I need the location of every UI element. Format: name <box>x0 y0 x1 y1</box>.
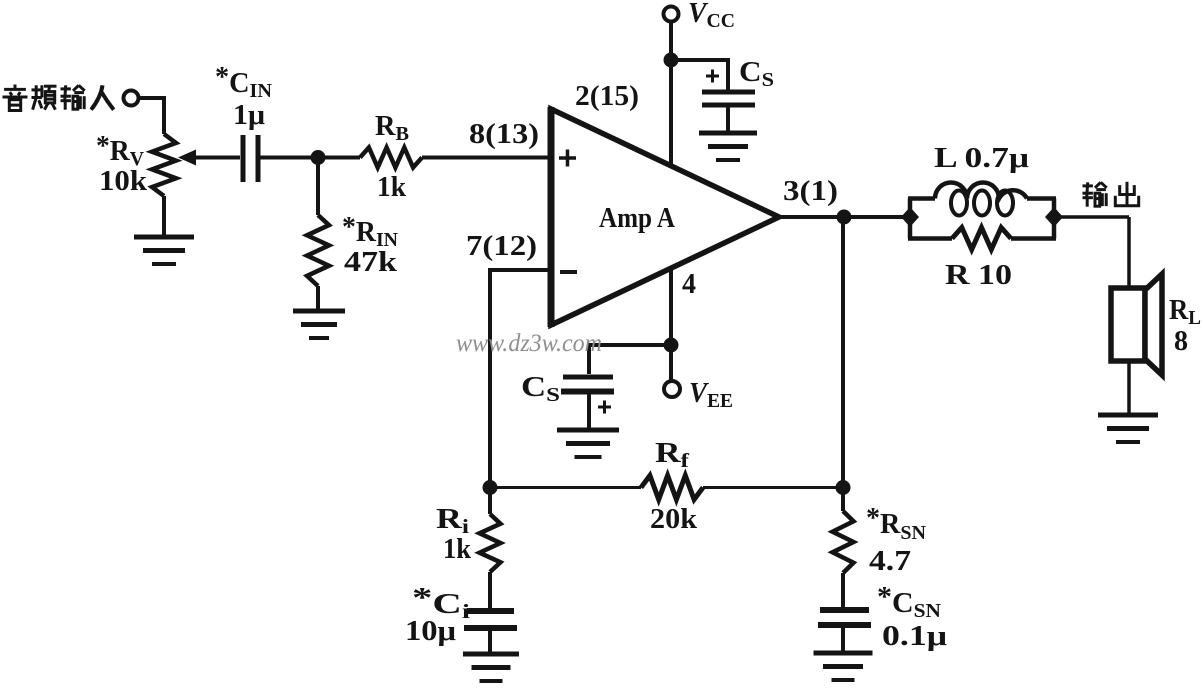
speaker RL <box>1111 274 1162 375</box>
svg-text:*RIN: *RIN <box>342 212 399 251</box>
op-amp U1 Amp A triangle <box>551 107 779 327</box>
svg-text:*RV: *RV <box>96 131 145 170</box>
wire op-amp output to L-R network <box>779 215 905 219</box>
plus sign of CS top <box>706 70 719 83</box>
wire node C up to output node <box>841 217 845 488</box>
svg-text:10μ: 10μ <box>405 616 456 647</box>
ground of Ci <box>463 654 519 681</box>
label RL <box>1169 295 1201 329</box>
ground of RV <box>134 237 194 264</box>
svg-text:8(13): 8(13) <box>469 119 539 150</box>
capacitor CS bottom <box>561 377 614 392</box>
svg-text:1k: 1k <box>443 534 471 565</box>
wire RB to op-amp + input pin 8 <box>422 156 551 160</box>
wire RV bottom to ground <box>162 196 166 236</box>
label Amp A <box>599 203 676 234</box>
svg-text:8: 8 <box>1174 326 1188 357</box>
ground of CS bottom <box>557 430 619 457</box>
svg-text:0.1μ: 0.1μ <box>882 621 947 652</box>
wire network to output <box>1059 215 1129 219</box>
svg-text:RB: RB <box>375 111 409 145</box>
label 1u <box>233 100 265 131</box>
wire RIN to ground <box>316 286 320 310</box>
label *CSN <box>877 582 942 622</box>
resistor Rf <box>641 476 703 500</box>
right junction diamond <box>1045 207 1063 227</box>
wire node B to Rf <box>490 486 641 489</box>
svg-text:Amp A: Amp A <box>599 203 676 234</box>
wire CS bottom to ground <box>587 394 591 428</box>
svg-text:1k: 1k <box>377 172 406 203</box>
wire node A down to RIN <box>316 158 320 216</box>
svg-text:4.7: 4.7 <box>869 546 911 577</box>
wire CIN to node A <box>260 156 318 160</box>
ground of CS top <box>699 133 757 160</box>
label pin 8(13) <box>469 119 539 150</box>
svg-text:VCC: VCC <box>688 0 735 32</box>
label pin 2(15) <box>575 81 639 112</box>
resistor RIN <box>307 215 329 286</box>
label *RV <box>96 131 145 170</box>
svg-text:3(1): 3(1) <box>783 176 838 207</box>
svg-text:CS: CS <box>739 57 774 91</box>
resistor R 10 <box>952 228 1011 250</box>
VCC terminal <box>664 7 679 22</box>
svg-text:RL: RL <box>1169 295 1201 329</box>
label 1k (RB) <box>377 172 406 203</box>
label 音频输入 (audio input) <box>3 85 114 111</box>
svg-text:4: 4 <box>682 269 696 300</box>
node VCC junction dot <box>664 53 679 68</box>
label RB <box>375 111 409 145</box>
wire input terminal to RV top <box>139 98 164 134</box>
node A junction dot <box>311 150 326 165</box>
VEE terminal <box>664 381 680 397</box>
label 输出 (output) <box>1083 182 1139 207</box>
svg-text:Rf: Rf <box>655 438 689 472</box>
label 20k <box>650 504 697 535</box>
wire CS to ground <box>726 107 730 132</box>
svg-text:www.dz3w.com: www.dz3w.com <box>456 330 602 357</box>
label 47k <box>344 247 398 278</box>
ground of RL <box>1098 415 1158 442</box>
wire node to CS top <box>671 60 728 90</box>
svg-text:7(12): 7(12) <box>466 231 537 262</box>
svg-text:VEE: VEE <box>689 378 733 412</box>
wire RSN to CSN <box>841 573 845 607</box>
svg-text:*CIN: *CIN <box>215 62 273 102</box>
wire Rf to node C <box>703 486 843 489</box>
label L 0.7u <box>934 143 1029 174</box>
svg-text:L 0.7μ: L 0.7μ <box>934 143 1029 174</box>
wire op-amp pin 7 to feedback node <box>490 270 551 487</box>
label 10k <box>99 166 147 197</box>
L-R network frame <box>908 199 1056 239</box>
svg-text:*CSN: *CSN <box>877 582 942 622</box>
plus sign of CS bottom <box>598 401 611 414</box>
label Ri <box>436 504 470 538</box>
label VCC <box>688 0 735 32</box>
svg-text:2(15): 2(15) <box>575 81 639 112</box>
left junction diamond <box>901 207 919 227</box>
label R 10 <box>945 260 1012 291</box>
plus input symbol <box>559 150 576 167</box>
resistor RSN <box>833 511 854 573</box>
wire op-amp pin 4 down <box>669 267 673 345</box>
potentiometer RV <box>152 134 176 196</box>
label 10u <box>405 616 456 647</box>
capacitor CSN <box>818 610 871 625</box>
watermark www.dz3w.com <box>456 330 602 357</box>
node D junction dot <box>837 210 852 225</box>
wiper arrow of RV <box>178 150 240 166</box>
wire Ci to ground <box>488 630 492 653</box>
ground of CSN <box>814 653 873 680</box>
wire CSN to ground <box>841 627 845 652</box>
node B junction dot <box>483 480 498 495</box>
capacitor CIN <box>243 135 258 182</box>
svg-text:*RSN: *RSN <box>866 503 927 544</box>
label CS bottom <box>521 372 560 406</box>
label *Ci <box>412 583 471 623</box>
label Rf <box>655 438 689 472</box>
label pin 7(12) <box>466 231 537 262</box>
label 0.1u <box>882 621 947 652</box>
wire node A to RB <box>325 156 360 160</box>
label 8 <box>1174 326 1188 357</box>
svg-text:1μ: 1μ <box>233 100 265 131</box>
svg-text:47k: 47k <box>344 247 398 278</box>
label 4.7 <box>869 546 911 577</box>
wire output down to speaker <box>1127 217 1131 288</box>
input terminal <box>124 91 139 106</box>
resistor Ri <box>480 514 501 572</box>
capacitor Ci <box>464 611 517 628</box>
node C junction dot <box>836 480 851 495</box>
label *CIN <box>215 62 273 102</box>
label 1k (Ri) <box>443 534 471 565</box>
resistor RB <box>360 148 422 168</box>
svg-text:10k: 10k <box>99 166 147 197</box>
ground of RIN <box>293 311 345 338</box>
wire node to CS bottom <box>589 345 671 374</box>
wire node B down to Ri <box>488 488 492 515</box>
svg-text:20k: 20k <box>650 504 697 535</box>
svg-text:R 10: R 10 <box>945 260 1012 291</box>
svg-text:CS: CS <box>521 372 560 406</box>
label pin 3(1) <box>783 176 838 207</box>
svg-text:Ri: Ri <box>436 504 470 538</box>
node VEE junction dot <box>664 338 679 353</box>
label VEE <box>689 378 733 412</box>
minus input symbol <box>560 270 577 274</box>
inductor L 3 loops <box>935 183 1027 216</box>
wire node to VEE terminal <box>669 345 673 381</box>
wire VCC to op-amp pin 2 <box>669 21 673 167</box>
wire speaker to ground <box>1127 361 1131 414</box>
label *RIN <box>342 212 399 251</box>
label *RSN <box>866 503 927 544</box>
wire node C down to RSN <box>841 488 845 512</box>
wire Ri to Ci <box>488 572 492 608</box>
label pin 4 <box>682 269 696 300</box>
capacitor CS top <box>702 92 755 105</box>
label CS top <box>739 57 774 91</box>
